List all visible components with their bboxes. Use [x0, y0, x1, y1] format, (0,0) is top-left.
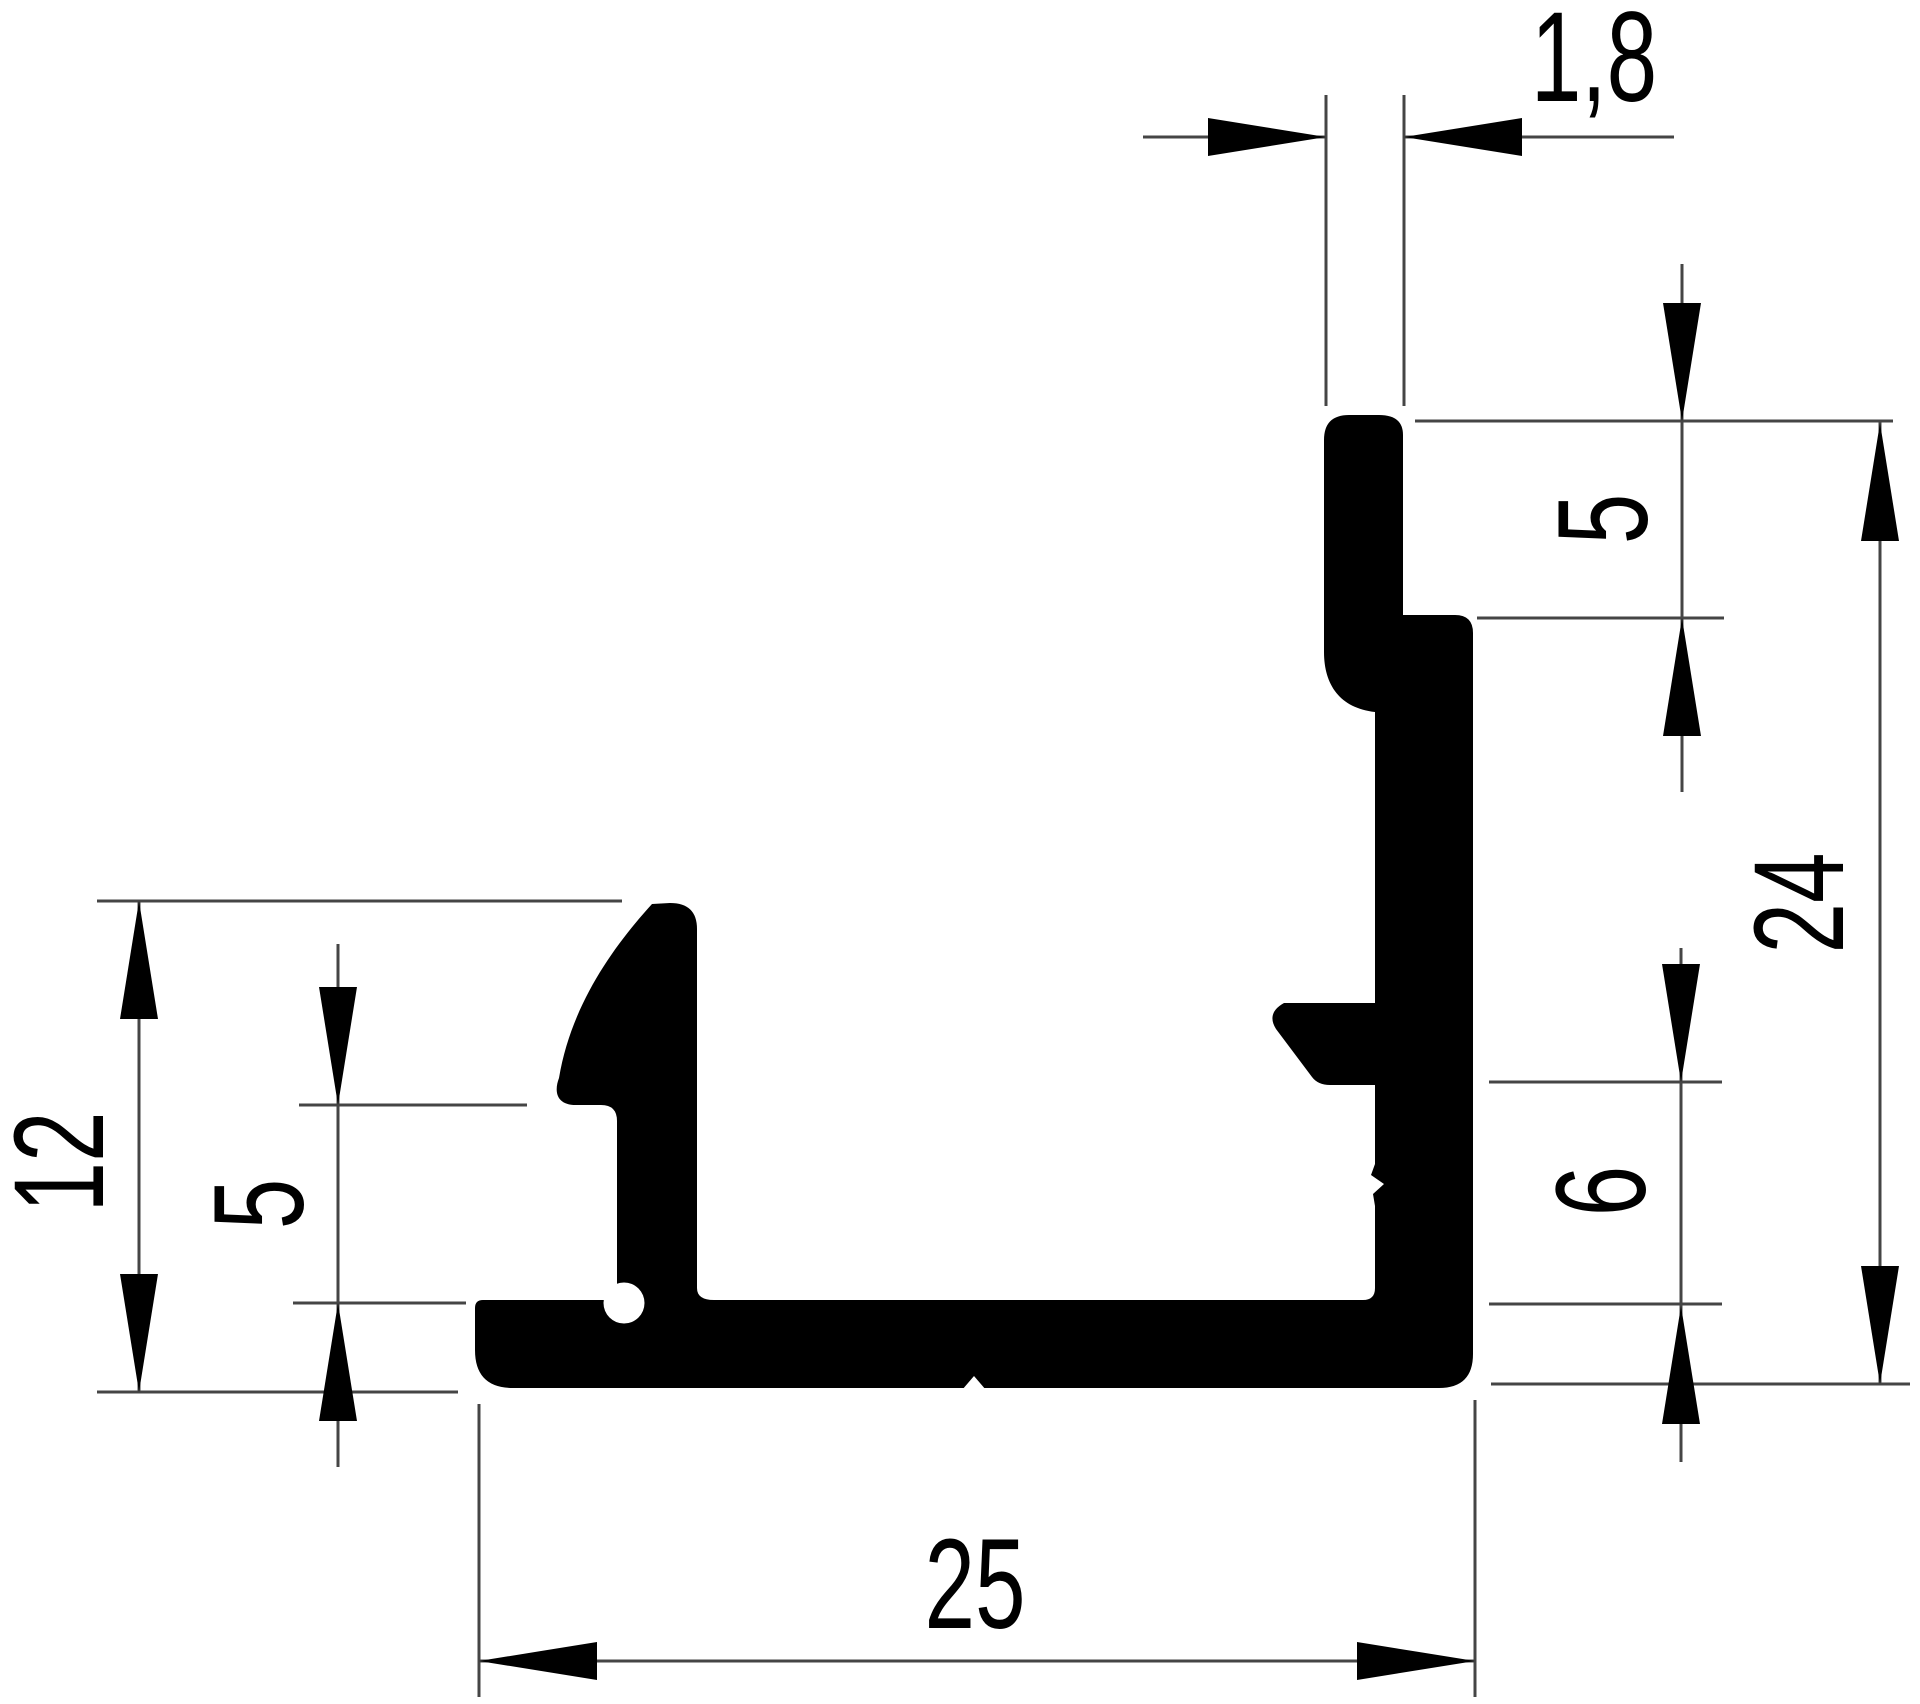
svg-text:12: 12 — [0, 1111, 131, 1212]
dimension line 1,8 right segment — [1404, 136, 1674, 139]
arrowhead 6 pointing down — [1662, 964, 1700, 1082]
extension line top (24 / 5 right) — [1415, 420, 1893, 423]
dimension text 25 — [924, 1513, 1025, 1656]
extension line 5 left bottom — [293, 1302, 466, 1305]
extension line 12 bottom — [97, 1391, 458, 1394]
arrowhead 12 pointing up — [120, 901, 158, 1019]
dimension text 5 right — [1532, 494, 1675, 545]
svg-text:25: 25 — [924, 1513, 1025, 1656]
extension line 24 bottom — [1491, 1383, 1910, 1386]
break notch bottom edge (white) — [962, 1376, 986, 1390]
dimension line 12 — [138, 901, 141, 1392]
dimension text 12 — [0, 1111, 131, 1212]
profile body: bottom flange, right wall, top blade, tooth — [475, 415, 1473, 1388]
dimension text 1,8 — [1531, 0, 1657, 129]
extension line 1,8 left — [1325, 95, 1328, 406]
arrowhead 25 pointing left — [479, 1642, 597, 1680]
svg-text:24: 24 — [1728, 852, 1871, 953]
extension line 6 top — [1489, 1081, 1722, 1084]
svg-text:6: 6 — [1530, 1166, 1673, 1217]
arrowhead 5 right pointing up — [1663, 618, 1701, 736]
extension line 5 right bottom — [1477, 617, 1724, 620]
dimension line 6 — [1680, 948, 1683, 1462]
arrowhead 12 pointing down — [120, 1274, 158, 1392]
dimension text 24 — [1728, 852, 1871, 953]
svg-text:5: 5 — [1532, 494, 1675, 545]
arrowhead 24 pointing up — [1861, 423, 1899, 541]
arrowhead 1,8 pointing right — [1208, 118, 1326, 156]
extension line 25 left — [478, 1404, 481, 1697]
arrowhead 6 pointing up — [1662, 1306, 1700, 1424]
arrowhead 25 pointing right — [1357, 1642, 1475, 1680]
profile left retaining tab — [557, 903, 714, 1320]
dimension text 5 left — [188, 1179, 331, 1230]
arrowhead 5 left pointing up — [319, 1303, 357, 1421]
svg-text:5: 5 — [188, 1179, 331, 1230]
extension line 25 right — [1474, 1400, 1477, 1697]
dimension line 24 — [1879, 421, 1882, 1384]
extension line 12 top — [97, 900, 622, 903]
arrowhead 24 pointing down — [1861, 1266, 1899, 1384]
arrowhead 1,8 pointing left — [1404, 118, 1522, 156]
svg-text:1,8: 1,8 — [1531, 0, 1657, 129]
extension line 1,8 right — [1403, 95, 1406, 406]
dimension line 5 right — [1681, 264, 1684, 792]
arrowhead 5 right pointing down — [1663, 303, 1701, 421]
dimension line 5 left — [337, 944, 340, 1467]
arrowhead 5 left pointing down — [319, 987, 357, 1105]
extension line 6 bottom — [1489, 1303, 1722, 1306]
extension line 5 left top — [299, 1104, 527, 1107]
dimension text 6 — [1530, 1166, 1673, 1217]
dimension line 1,8 left segment — [1143, 136, 1326, 139]
dimension line 25 — [479, 1660, 1475, 1663]
screw-port hole (white) — [604, 1283, 645, 1324]
